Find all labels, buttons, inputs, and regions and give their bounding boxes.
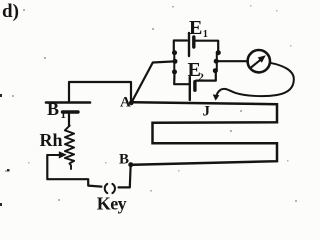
svg-text:d): d) <box>2 1 19 22</box>
svg-text:B: B <box>47 99 59 119</box>
svg-text:Key: Key <box>97 194 127 214</box>
svg-text:E: E <box>189 17 202 39</box>
svg-text:Rh: Rh <box>40 130 63 150</box>
svg-text:2: 2 <box>198 72 204 84</box>
svg-text:J: J <box>203 104 211 120</box>
svg-text:1: 1 <box>203 29 208 40</box>
svg-text:A: A <box>120 94 131 110</box>
svg-text:B: B <box>119 151 129 167</box>
svg-text:1: 1 <box>61 109 67 121</box>
